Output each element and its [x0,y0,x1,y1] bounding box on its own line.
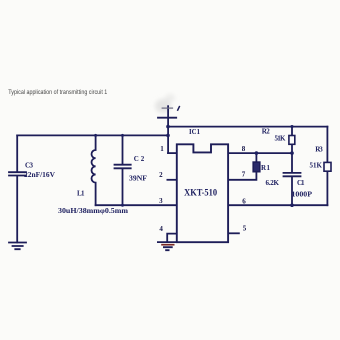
wire pin 2 stub [167,179,176,181]
wire C3 branch vertical [16,135,18,242]
antenna crossbar long [158,117,176,119]
antenna vertical [167,106,169,153]
capacitor C3 [9,172,26,175]
svg-text:5: 5 [243,225,247,233]
svg-text:2: 2 [159,171,163,179]
op-amp/IC U1 body XKT-510 [177,144,228,242]
wire C1 branch [291,153,293,205]
svg-text:Typical application of transmi: Typical application of transmitting circ… [8,89,107,96]
wire pin 7 [228,172,256,180]
wire pin 1 [168,152,177,154]
resistor R3 [324,162,331,171]
wire pin 5 stub [228,232,239,234]
svg-text:6.2K: 6.2K [266,179,280,187]
ground (left) [9,243,26,250]
antenna crossbar short [162,107,172,109]
svg-text:XKT-510: XKT-510 [184,187,217,197]
svg-text:7: 7 [242,171,246,179]
resistor R2 [289,136,295,145]
wire top-right rail [168,126,327,128]
junction node (antenna/left rail) [166,134,170,138]
wire pin 8 [228,152,292,154]
smudge artifact near antenna [155,94,175,113]
inductor L1 [92,135,96,205]
wire right vertical [326,127,328,206]
capacitor C2 [115,135,131,205]
ground (pin 4) lower bars [164,247,172,250]
junction node (C2 top) [121,134,124,137]
svg-text:39NF: 39NF [129,175,147,183]
wire top-left rail [17,134,168,136]
svg-text:L1: L1 [77,190,85,198]
antenna tick [178,107,180,111]
svg-text:30uH/38mmφ0.5mm: 30uH/38mmφ0.5mm [58,207,128,215]
svg-text:6: 6 [242,198,246,206]
junction node (C1 bottom) [290,203,294,207]
capacitor C1 [284,173,301,176]
wire pin 4 [167,234,177,243]
svg-text:1: 1 [160,145,164,153]
wire R1 top lead [255,153,257,162]
svg-text:4: 4 [159,225,163,233]
svg-text:C3: C3 [25,162,34,170]
svg-text:8: 8 [242,145,246,153]
ground (pin 4) top bar [158,241,177,243]
ground (pin 4) maroon bar [161,244,174,246]
svg-text:C1: C1 [297,179,305,187]
wire R2 branch [291,127,293,154]
junction node (R1/pin8) [255,151,259,155]
wire pin 6 rail [228,204,327,206]
svg-text:R3: R3 [315,145,323,153]
svg-text:IC1: IC1 [189,129,201,136]
svg-text:51K: 51K [275,134,287,142]
junction node (R2/pin8) [290,151,294,155]
svg-text:R2: R2 [262,127,271,135]
junction node (R2 top rail) [290,125,293,128]
svg-text:22nF/16V: 22nF/16V [24,171,55,179]
svg-text:51K: 51K [310,161,323,169]
svg-text:R1: R1 [261,164,271,172]
junction node (C2 bottom) [121,204,124,207]
junction node A (antenna/right rail) [166,125,170,129]
junction node (L1 top) [94,134,97,137]
svg-text:1000P: 1000P [292,190,313,198]
wire bottom-left rail (pin 3) [96,204,177,206]
svg-text:3: 3 [159,197,163,205]
resistor R1 [253,162,260,172]
